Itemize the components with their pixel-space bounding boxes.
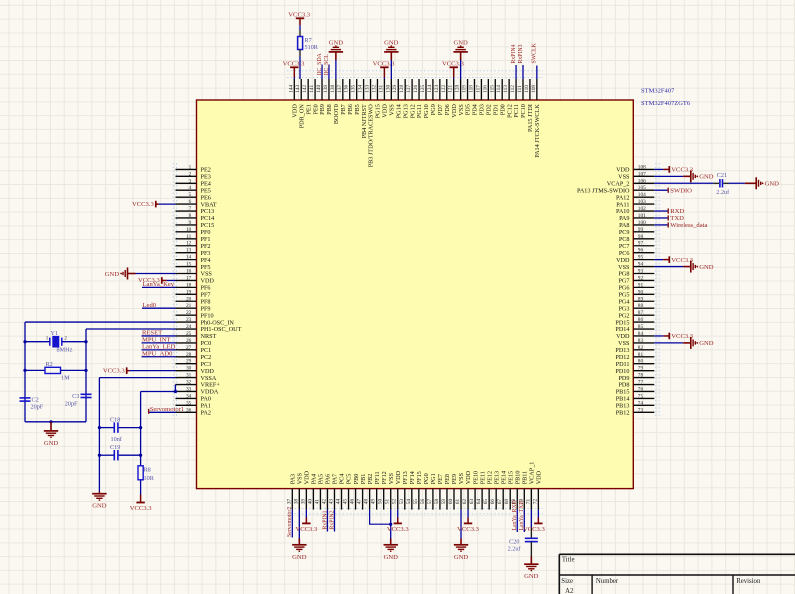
svg-text:PD15: PD15: [615, 319, 629, 326]
ground at pin 138 BOOT0: [329, 40, 344, 79]
pin 84 VDD: [616, 331, 654, 340]
pin 94 VSS: [618, 262, 654, 271]
pin 79 PD10: [615, 366, 654, 375]
wire pin 32 VREF+ to VDDA: [174, 384, 176, 386]
svg-text:8: 8: [189, 213, 192, 219]
ground at pin 107 VSS: [654, 170, 713, 182]
pin 54 PF14: [406, 471, 416, 509]
svg-text:112: 112: [510, 85, 516, 93]
svg-text:Revision: Revision: [736, 578, 761, 585]
svg-text:PA4: PA4: [311, 474, 318, 484]
svg-text:VCC3.3: VCC3.3: [457, 526, 480, 533]
pin 64 PE11: [476, 471, 486, 509]
pin 115 PD1: [489, 79, 499, 115]
svg-text:510R: 510R: [305, 44, 319, 51]
pin 70 PB11: [518, 471, 528, 510]
svg-text:Servomotor2: Servomotor2: [287, 507, 293, 537]
pin 19 PF7: [176, 289, 211, 298]
svg-text:122: 122: [441, 85, 447, 93]
junction Y1 right: [84, 340, 87, 343]
ground at pin 16 VSS: [105, 268, 176, 280]
svg-text:108: 108: [638, 164, 646, 170]
svg-text:GND: GND: [105, 271, 120, 278]
svg-text:76: 76: [638, 386, 644, 392]
svg-text:PG0: PG0: [423, 473, 430, 484]
svg-text:77: 77: [638, 380, 644, 386]
svg-text:110: 110: [524, 85, 530, 93]
svg-text:PE8: PE8: [444, 474, 451, 484]
svg-text:VCC3.3: VCC3.3: [103, 367, 126, 374]
pin 113 PC12: [503, 79, 513, 118]
pin 108 VDD: [616, 164, 654, 173]
svg-text:97: 97: [638, 241, 644, 247]
pin 6 VBAT: [176, 199, 217, 208]
svg-text:82: 82: [638, 345, 644, 351]
pin 48 PB2: [364, 474, 374, 510]
svg-text:PD10: PD10: [615, 368, 629, 375]
wire R7 to pin 143 PDR_ON: [299, 50, 301, 57]
svg-text:PE6: PE6: [201, 194, 211, 201]
pin 102 PA10: [616, 206, 654, 215]
svg-text:VDD: VDD: [201, 368, 215, 375]
svg-text:43: 43: [328, 499, 334, 505]
ground at pin 120 VSS: [453, 40, 468, 79]
pin 5 PE6: [176, 192, 211, 201]
svg-text:VSS: VSS: [297, 472, 304, 484]
junction C18 left: [98, 426, 101, 429]
wire pin 33 VDDA rail: [141, 390, 176, 392]
pin 137 PB7: [337, 79, 347, 115]
pin 20 PF8: [176, 296, 211, 305]
svg-text:104: 104: [638, 192, 646, 198]
pin 65 PE12: [483, 471, 493, 510]
pin 66 PE13: [490, 471, 500, 510]
net label RxPIN3 at pin 111 PC10: [518, 44, 524, 79]
svg-text:19: 19: [186, 289, 192, 295]
svg-text:C19: C19: [110, 444, 120, 451]
svg-text:35: 35: [186, 400, 192, 406]
net label RxPIN2 at pin 43 PA7: [329, 510, 335, 532]
svg-text:PE7: PE7: [437, 474, 444, 484]
svg-text:67: 67: [497, 499, 503, 505]
svg-text:SWDIO: SWDIO: [670, 187, 692, 194]
pin 22 PF10: [176, 310, 214, 319]
svg-text:R8: R8: [144, 467, 151, 474]
svg-text:100: 100: [638, 220, 646, 226]
net label Wireless_data at pin 100 PA8: [654, 222, 707, 229]
svg-text:PG7: PG7: [618, 278, 629, 285]
pin 33 VDDA: [176, 386, 219, 395]
pin 57 PG1: [427, 473, 437, 509]
svg-text:123: 123: [434, 85, 440, 93]
svg-text:42: 42: [321, 499, 327, 505]
svg-text:PD14: PD14: [615, 326, 629, 333]
svg-text:PF15: PF15: [416, 471, 423, 484]
svg-text:STM32F407: STM32F407: [641, 87, 675, 94]
pin 32 VREF+: [176, 380, 221, 389]
pin 73 PB12: [616, 407, 655, 416]
pin 26 PC0: [176, 338, 212, 347]
svg-text:61: 61: [455, 499, 461, 505]
svg-text:LanYa_LED: LanYa_LED: [142, 343, 176, 350]
svg-text:2.2uf: 2.2uf: [508, 545, 522, 552]
net label IIC_SCL at pin 139 PB8: [324, 54, 330, 79]
pin 82 PD13: [615, 345, 654, 354]
svg-text:VCC3.3: VCC3.3: [295, 526, 318, 533]
svg-text:32: 32: [186, 380, 192, 386]
pin 76 PB15: [616, 386, 655, 395]
svg-text:89: 89: [638, 296, 644, 302]
svg-text:134: 134: [358, 85, 364, 93]
svg-text:PF12: PF12: [381, 471, 388, 484]
svg-text:28: 28: [186, 352, 192, 358]
svg-text:VSS: VSS: [458, 472, 465, 484]
title block: [559, 554, 795, 594]
svg-text:PE10: PE10: [472, 471, 479, 484]
svg-text:117: 117: [475, 85, 481, 93]
pin 71 VCAP_1: [525, 462, 535, 510]
pin 67 PE14: [497, 471, 507, 510]
svg-text:PF6: PF6: [201, 285, 211, 292]
svg-text:51: 51: [385, 499, 391, 505]
svg-text:RxPIN4: RxPIN4: [511, 44, 517, 63]
svg-text:PA2: PA2: [201, 410, 211, 417]
svg-text:PA7: PA7: [332, 474, 339, 484]
svg-text:18: 18: [186, 282, 192, 288]
svg-text:118: 118: [468, 85, 474, 93]
junction VREF+/VDDA: [174, 390, 177, 393]
pin 136 PB6: [344, 79, 354, 115]
svg-text:GND: GND: [44, 440, 59, 447]
svg-text:105: 105: [638, 185, 646, 191]
pin 11 PF1: [176, 234, 211, 243]
svg-text:125: 125: [420, 85, 426, 93]
pin 44 PC4: [336, 474, 346, 510]
svg-text:22: 22: [186, 310, 192, 316]
svg-text:1M: 1M: [61, 375, 70, 382]
pin 29 PC3: [176, 359, 212, 368]
pin 126 PG11: [413, 79, 423, 118]
pin 18 PF6: [176, 282, 211, 291]
pin 100 PA8: [619, 220, 654, 229]
svg-text:MPU_AD0: MPU_AD0: [142, 350, 173, 357]
power port VCC3.3 at pin 62 VDD: [457, 510, 480, 533]
pin 39 VDD: [300, 470, 310, 509]
svg-text:81: 81: [638, 352, 644, 358]
svg-text:PH1-OSC_OUT: PH1-OSC_OUT: [201, 326, 242, 333]
pin 51 VSS: [385, 472, 395, 509]
svg-text:96: 96: [638, 248, 644, 254]
pin 2 PE3: [176, 171, 211, 180]
svg-text:VDD: VDD: [536, 470, 543, 484]
pin 62 VDD: [462, 470, 472, 509]
pin 61 VSS: [455, 472, 465, 509]
svg-text:GND: GND: [699, 174, 714, 181]
svg-text:PA1: PA1: [201, 403, 211, 410]
pin 131 VDD: [378, 79, 388, 118]
pin 49 PF11: [371, 471, 381, 509]
svg-text:PB10: PB10: [514, 471, 521, 485]
svg-text:LanYa_RXD: LanYa_RXD: [512, 500, 518, 530]
pin 53 PF13: [399, 471, 409, 509]
svg-text:45: 45: [343, 499, 349, 505]
svg-text:GND: GND: [292, 554, 307, 561]
resistor R7 510R: [298, 37, 319, 51]
svg-text:31: 31: [186, 373, 192, 379]
pin 119 PD5: [462, 79, 472, 115]
svg-text:GND: GND: [454, 554, 469, 561]
svg-text:88: 88: [638, 303, 644, 309]
svg-text:143: 143: [295, 85, 301, 93]
ground at pin 51 VSS: [384, 510, 399, 561]
svg-text:15: 15: [186, 262, 192, 268]
svg-text:GND: GND: [524, 573, 539, 580]
pin 78 PD9: [618, 373, 654, 382]
svg-text:119: 119: [462, 85, 468, 93]
svg-text:RESET: RESET: [142, 330, 162, 337]
pin 134 PB4 NJTRST: [358, 79, 368, 138]
pin 117 PD3: [475, 79, 485, 115]
svg-text:VSS: VSS: [388, 472, 395, 484]
svg-text:17: 17: [186, 275, 192, 281]
svg-text:Ph0-OSC_IN: Ph0-OSC_IN: [201, 319, 235, 326]
pin 124 PG9: [427, 79, 437, 115]
pin 3 PE4: [176, 178, 211, 187]
svg-text:10R: 10R: [144, 475, 155, 482]
pin 139 PB8: [323, 79, 333, 115]
svg-text:4: 4: [189, 185, 192, 191]
svg-text:PA6: PA6: [325, 474, 332, 484]
net label LanYa_LED at pin 27 PC1: [142, 343, 176, 350]
svg-text:Wireless_data: Wireless_data: [670, 222, 707, 229]
pin 103 PA11: [616, 199, 654, 208]
pin 4 PE5: [176, 185, 211, 194]
svg-text:44: 44: [336, 499, 342, 505]
svg-text:86: 86: [638, 317, 644, 323]
pin 133 PB3 JTDO/TRACESWO: [365, 79, 375, 167]
svg-text:135: 135: [351, 85, 357, 93]
svg-text:94: 94: [638, 262, 644, 268]
capacitor C19: [99, 444, 140, 461]
pin 40 PA4: [307, 474, 317, 510]
svg-text:2: 2: [189, 171, 192, 177]
ground (C21): [745, 177, 779, 189]
pin 1 PE2: [176, 164, 211, 173]
svg-text:80: 80: [638, 359, 644, 365]
svg-text:98: 98: [638, 234, 644, 240]
svg-text:38: 38: [293, 499, 299, 505]
svg-text:3: 3: [189, 178, 192, 184]
resistor R8 10R: [138, 466, 155, 482]
svg-text:127: 127: [406, 85, 412, 93]
svg-text:40: 40: [307, 499, 313, 505]
pin 46 PB0: [350, 474, 360, 510]
svg-text:60: 60: [448, 499, 454, 505]
ground (crystal): [44, 422, 59, 447]
svg-text:PC7: PC7: [619, 243, 630, 250]
svg-text:39: 39: [300, 499, 306, 505]
pin 87 PG2: [618, 310, 654, 319]
power port VCC3.3 at pin 30 VDD: [103, 367, 176, 374]
svg-text:34: 34: [186, 393, 192, 399]
svg-text:PB13: PB13: [616, 403, 630, 410]
svg-text:33: 33: [186, 386, 192, 392]
net label RXD at pin 102 PA10: [654, 208, 684, 215]
svg-text:VDD: VDD: [304, 470, 311, 484]
junction crystal ground: [49, 420, 52, 423]
svg-text:2.2uf: 2.2uf: [716, 189, 730, 196]
svg-text:VCAP_1: VCAP_1: [529, 462, 536, 485]
capacitor C2 20pF: [20, 397, 44, 411]
power port VCC3.3 at pin 52 VDD: [387, 510, 410, 533]
wire pin 24 PH1-OSC_OUT to crystal: [86, 328, 176, 330]
svg-text:PC9: PC9: [619, 229, 630, 236]
pin 111 PC10: [517, 79, 527, 118]
junction PB2/VSS: [389, 523, 392, 526]
svg-text:VDD: VDD: [201, 278, 215, 285]
net label Servomotor2 at pin 37 PA3: [287, 507, 293, 538]
pin 13 PF3: [176, 248, 211, 257]
net label LanYa_Key at pin 18 PF6: [142, 281, 176, 288]
svg-text:VCC3.3: VCC3.3: [387, 526, 410, 533]
pin 132 PG15: [371, 79, 381, 118]
svg-text:GND: GND: [92, 503, 107, 510]
svg-text:47: 47: [357, 499, 363, 505]
svg-text:56: 56: [420, 499, 426, 505]
pin 125 PG10: [420, 79, 430, 118]
pin 101 PA9: [619, 213, 654, 222]
pin 135 PB5: [351, 79, 361, 115]
svg-text:PE12: PE12: [486, 471, 493, 484]
pin 127 PG12: [406, 79, 416, 118]
net label RxPIN1 at pin 42 PA6: [322, 510, 328, 532]
wire R8 to VCC3.3: [140, 480, 142, 495]
svg-text:63: 63: [469, 499, 475, 505]
svg-text:RxPIN2: RxPIN2: [329, 510, 335, 529]
svg-text:68: 68: [504, 499, 510, 505]
pin 38 VSS: [293, 472, 303, 509]
net label MPU_AD0 at pin 28 PC2: [142, 350, 176, 357]
svg-text:141: 141: [309, 85, 315, 93]
net label SWDIO at pin 105 PA13: [654, 187, 692, 194]
svg-text:PF1: PF1: [201, 236, 211, 243]
pin 129 PG14: [392, 79, 402, 118]
pin 58 PE7: [434, 474, 444, 510]
pin 123 PD7: [434, 79, 444, 115]
svg-text:PB2: PB2: [367, 474, 374, 485]
pin 98 PC8: [619, 234, 654, 243]
pin 85 PD14: [615, 324, 654, 333]
svg-text:C2: C2: [32, 397, 39, 404]
junction R2 right: [84, 369, 87, 372]
pin 96 PC6: [619, 248, 654, 257]
svg-text:PF2: PF2: [201, 243, 211, 250]
pin 14 PF4: [176, 255, 211, 264]
net label Servomotor1 at pin 36 PA2: [149, 406, 184, 414]
capacitor C21 2.2uf: [654, 172, 745, 196]
svg-text:20: 20: [186, 296, 192, 302]
svg-text:PB12: PB12: [616, 410, 630, 417]
svg-text:PB0: PB0: [353, 474, 360, 485]
pin 36 PA2: [176, 407, 211, 416]
svg-text:5: 5: [189, 192, 192, 198]
wire VCC3.3 to R7: [299, 25, 301, 30]
svg-text:52: 52: [392, 499, 398, 505]
svg-text:54: 54: [406, 499, 412, 505]
svg-text:37: 37: [286, 499, 292, 505]
svg-text:120: 120: [455, 85, 461, 93]
pin 89 PG4: [618, 296, 654, 305]
pin 34 PA0: [176, 393, 211, 402]
ground (VSSA rail): [92, 492, 107, 510]
svg-text:PF11: PF11: [374, 471, 381, 484]
svg-text:6: 6: [189, 199, 192, 205]
svg-text:62: 62: [462, 499, 468, 505]
svg-text:RxPIN1: RxPIN1: [322, 510, 328, 529]
pin 52 VDD: [392, 470, 402, 509]
power port VCC3.3 (below R8): [130, 495, 153, 513]
pin 106 VCAP_2: [607, 178, 655, 187]
pin 83 VSS: [618, 338, 654, 347]
pin 60 PE9: [448, 474, 458, 510]
svg-text:PA12: PA12: [616, 194, 630, 201]
capacitor C18 10nf: [99, 417, 140, 443]
pin 121 VDD: [448, 79, 458, 118]
svg-text:107: 107: [638, 171, 646, 177]
svg-text:8MHz: 8MHz: [57, 347, 73, 354]
power port VCC3.3 at pin 131 VDD: [373, 61, 396, 80]
pin 23 Ph0-OSC_IN: [176, 317, 235, 326]
svg-text:64: 64: [476, 499, 482, 505]
svg-text:90: 90: [638, 289, 644, 295]
pin 9 PC15: [176, 220, 215, 229]
svg-text:21: 21: [186, 303, 192, 309]
svg-text:121: 121: [448, 85, 454, 93]
svg-text:101: 101: [638, 213, 646, 219]
net label IIC_SDA at pin 140 PB9: [317, 52, 323, 79]
svg-text:IIC_SCL: IIC_SCL: [324, 54, 330, 76]
svg-text:PE14: PE14: [500, 471, 507, 484]
svg-text:PB11: PB11: [521, 471, 528, 485]
svg-text:65: 65: [483, 499, 489, 505]
svg-text:41: 41: [314, 499, 320, 505]
svg-text:140: 140: [316, 85, 322, 93]
pin 109 PA14 JTCK-SWCLK: [531, 79, 541, 158]
svg-text:24: 24: [186, 324, 192, 330]
svg-text:VDD: VDD: [395, 470, 402, 484]
svg-text:C21: C21: [717, 172, 727, 179]
svg-text:IIC_SDA: IIC_SDA: [317, 52, 323, 75]
pin 42 PA6: [321, 474, 331, 510]
pin 80 PD11: [616, 359, 655, 368]
pin 28 PC2: [176, 352, 212, 361]
svg-text:SWCLK: SWCLK: [532, 42, 538, 63]
svg-text:113: 113: [503, 85, 509, 93]
svg-text:C18: C18: [110, 417, 120, 424]
pin 72 VDD: [532, 470, 542, 509]
pin 120 VSS: [455, 79, 465, 116]
svg-text:128: 128: [399, 85, 405, 93]
svg-text:27: 27: [186, 345, 192, 351]
power port VCC3.3 at pin 6 VBAT: [132, 201, 176, 208]
svg-text:9: 9: [189, 220, 192, 226]
net label LanYa_TXD at pin 70 PB11: [519, 500, 525, 532]
ground at pin 38 VSS: [292, 510, 307, 561]
svg-text:Size: Size: [561, 578, 573, 585]
svg-text:136: 136: [344, 85, 350, 93]
net label Led0 at pin 21 PF9: [142, 302, 176, 309]
svg-text:PF13: PF13: [402, 471, 409, 484]
